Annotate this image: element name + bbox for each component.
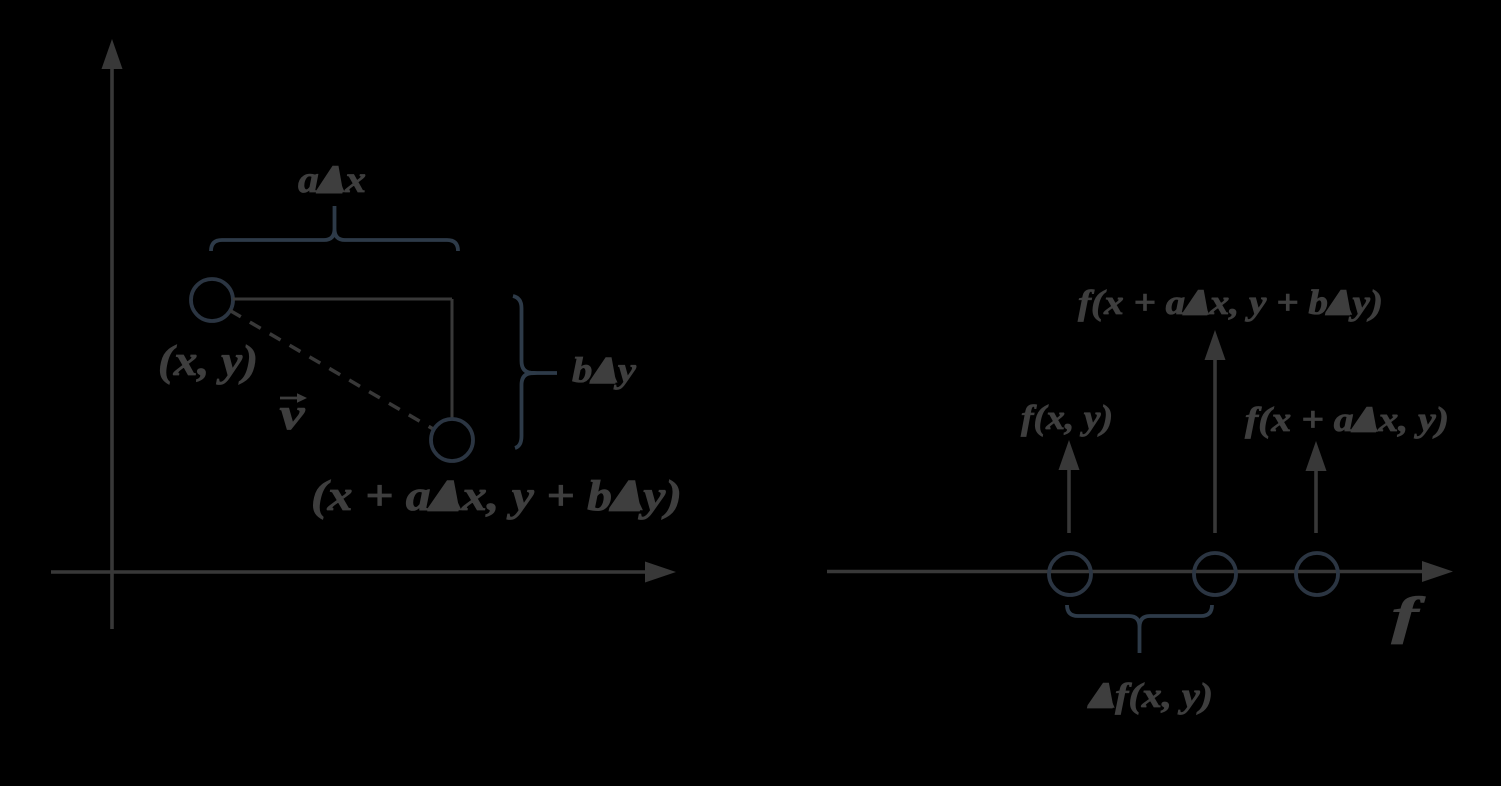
svg-text:f: f — [1392, 588, 1426, 645]
svg-text:f(x, y): f(x, y) — [1021, 398, 1113, 437]
right curly brace b&#916;y — [513, 296, 557, 448]
arrow f(x+a&#916;x,y) — [1306, 441, 1327, 533]
node f(x+a&#916;x,y+b&#916;y) circle — [1194, 553, 1236, 595]
x-axis (left diagram) — [51, 562, 676, 583]
point (x,y) circle — [191, 279, 233, 321]
node f(x+a&#916;x,y) circle — [1296, 553, 1338, 595]
vertical wire down to second point — [451, 299, 454, 418]
f-axis (right diagram) — [827, 561, 1453, 582]
svg-text:f(x + aΔx, y): f(x + aΔx, y) — [1245, 400, 1449, 439]
svg-text:(x, y): (x, y) — [158, 338, 258, 385]
arrow above v — [280, 397, 300, 400]
bottom curly brace &#916;f(x,y) — [1067, 605, 1212, 653]
arrow f(x,y) — [1059, 440, 1080, 533]
top curly brace a&#916;x — [211, 206, 458, 251]
horizontal wire from (x,y) — [233, 298, 452, 301]
arrow f(x+a&#916;x,y+b&#916;y) — [1205, 330, 1226, 533]
delta triangle overlays (solid fill like target) — [319, 166, 1378, 708]
point (x+a&#916;x, y+b&#916;y) circle — [431, 419, 473, 461]
y-axis (left diagram) — [102, 39, 123, 629]
node f(x,y) circle — [1049, 553, 1091, 595]
dashed vector line v — [230, 311, 434, 430]
